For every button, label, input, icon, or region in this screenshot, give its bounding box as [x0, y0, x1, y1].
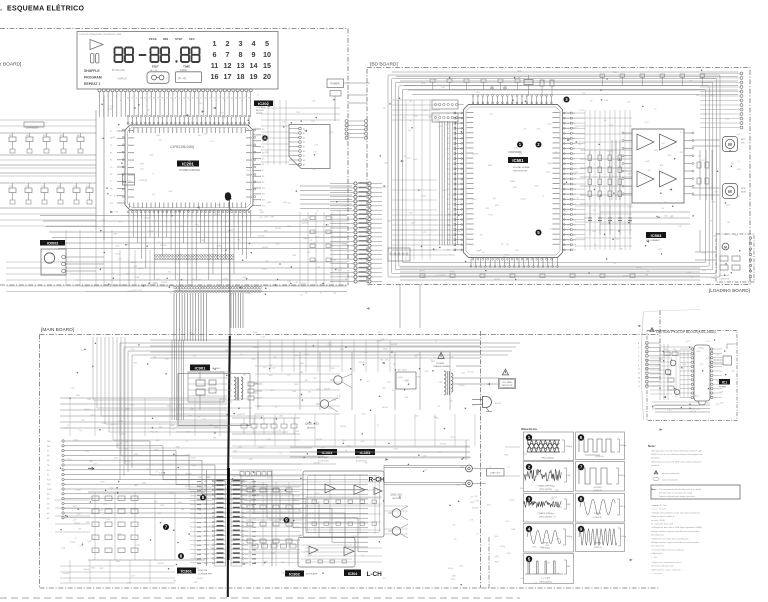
- svg-text:5: 5: [145, 222, 146, 224]
- svg-text:100: 100: [627, 101, 630, 103]
- svg-text:28: 28: [215, 100, 217, 102]
- svg-text:○ : test point: ○ : test point: [651, 572, 662, 575]
- BD board right pin to ladder wires: [572, 112, 585, 114]
- svg-text:○ : CD: ○ : CD: [651, 556, 657, 559]
- optical pickup left connector: [646, 342, 649, 344]
- svg-text:: internal component.: : internal component.: [661, 472, 680, 475]
- main board lower-left wires: [55, 499, 90, 501]
- svg-text:DSP: DSP: [510, 181, 515, 183]
- svg-text:SLED: SLED: [47, 489, 52, 491]
- svg-text:K9: K9: [262, 182, 264, 184]
- svg-text:# F <: # F <: [667, 409, 673, 412]
- svg-text:• Abbreviations used in schema: • Abbreviations used in schematic.: [651, 568, 682, 571]
- svg-text:2SC945: 2SC945: [236, 398, 242, 400]
- small arrowheads scattered: [202, 110, 205, 112]
- comp row right of fold: [240, 472, 244, 477]
- IC502 surrounding passives: [611, 140, 613, 200]
- svg-text:66: 66: [567, 184, 569, 186]
- svg-text:L557: L557: [701, 160, 705, 162]
- svg-text:C412: C412: [118, 443, 122, 445]
- svg-text:31: 31: [228, 96, 230, 98]
- svg-text:64: 64: [567, 194, 569, 196]
- svg-text:1: 1: [213, 39, 217, 48]
- svg-text:0.1: 0.1: [320, 293, 322, 295]
- svg-text:34: 34: [144, 98, 146, 100]
- loading board wires: [695, 251, 716, 253]
- wires RCH to jacks: [384, 464, 466, 466]
- svg-text:Q302: Q302: [118, 285, 122, 287]
- svg-text:0.022µ: 0.022µ: [505, 263, 510, 265]
- svg-text:10µ/16V: 10µ/16V: [195, 280, 202, 282]
- svg-text:10µ/16V: 10µ/16V: [258, 447, 265, 449]
- svg-text:55: 55: [567, 240, 569, 242]
- svg-text:220: 220: [646, 271, 649, 273]
- svg-text:18: 18: [457, 199, 459, 201]
- svg-text:14: 14: [183, 222, 185, 224]
- svg-text:L530: L530: [116, 445, 120, 447]
- marker 8: [200, 495, 206, 501]
- IC502 right pins: [684, 132, 692, 134]
- svg-text:23: 23: [457, 224, 459, 226]
- svg-text:D501: D501: [127, 582, 131, 584]
- IC202 label: [254, 101, 273, 107]
- svg-text:K7: K7: [262, 170, 264, 172]
- fold blob: [225, 192, 231, 200]
- main board verticals under power: [254, 414, 256, 446]
- main board left staircase wires: [64, 441, 368, 475]
- svg-text:10µ/16V: 10µ/16V: [262, 247, 269, 249]
- svg-text:D454: D454: [476, 92, 480, 94]
- waveform 6 square: [576, 432, 625, 460]
- svg-text:R305: R305: [507, 553, 511, 555]
- svg-text:• Voltages are dash with a VOM: • Voltages are dash with a VOM (Input im…: [651, 526, 703, 529]
- svg-text:D135: D135: [328, 408, 332, 410]
- svg-text:2SC945: 2SC945: [301, 220, 307, 222]
- svg-text:C412: C412: [295, 282, 299, 284]
- svg-text:R305: R305: [300, 363, 304, 365]
- svg-text:50WV or less are not indicated: 50WV or less are not indicated except fo…: [651, 453, 702, 456]
- svg-text:67: 67: [567, 179, 569, 181]
- marker 6: [178, 553, 184, 559]
- IC1 label: [719, 379, 730, 385]
- svg-text:D501: D501: [157, 513, 161, 515]
- svg-text:C412: C412: [664, 215, 668, 217]
- svg-text:R305: R305: [545, 545, 549, 547]
- svg-text:Q302: Q302: [658, 249, 662, 251]
- IC303 label left: [317, 449, 337, 455]
- svg-text:4: 4: [141, 222, 142, 224]
- svg-text:D501: D501: [488, 165, 492, 167]
- svg-text:Q888: Q888: [267, 202, 271, 204]
- wire display board to BD top: [348, 94, 367, 96]
- svg-text:4558 D/A: 4558 D/A: [198, 569, 208, 572]
- svg-text:D26: D26: [573, 245, 576, 247]
- IC201 internal pin name labels: [128, 128, 131, 134]
- svg-text:1/4W: 1/4W: [416, 376, 420, 378]
- L-CH black box: [344, 570, 361, 577]
- svg-text:Q865: Q865: [452, 576, 456, 578]
- svg-text:C364: C364: [280, 562, 284, 564]
- svg-text:2SC945: 2SC945: [340, 426, 346, 428]
- svg-text:10µ/16V: 10µ/16V: [391, 344, 398, 346]
- IC1 pin pads right: [711, 348, 713, 350]
- svg-text:R305: R305: [340, 349, 344, 351]
- svg-text:0.022µ: 0.022µ: [504, 254, 509, 256]
- svg-text:Q302: Q302: [246, 293, 250, 295]
- svg-text:3: 3: [136, 222, 137, 224]
- svg-text:Q325: Q325: [382, 388, 386, 390]
- marker 7: [163, 524, 169, 530]
- svg-text:54: 54: [567, 245, 569, 247]
- display board right section comps: [310, 216, 315, 220]
- svg-text:STEP: STEP: [175, 37, 182, 41]
- wires transformer to selector: [453, 377, 499, 379]
- display lower bus extension: [6, 261, 60, 263]
- connector pad strip CN201: [155, 254, 157, 256]
- svg-text:1/4W: 1/4W: [170, 425, 174, 427]
- svg-text:P5: P5: [110, 167, 112, 169]
- svg-text:D501: D501: [382, 187, 386, 189]
- svg-text:K3: K3: [262, 147, 264, 149]
- svg-text:L580: L580: [246, 170, 250, 172]
- svg-text:R11: R11: [9, 135, 12, 137]
- svg-text:PEAK: PEAK: [149, 37, 157, 41]
- svg-text:Q304: Q304: [347, 446, 351, 448]
- svg-text:0.022: 0.022: [701, 252, 705, 254]
- svg-text:C908: C908: [397, 388, 401, 390]
- svg-text:1/4W: 1/4W: [135, 277, 139, 279]
- svg-text:1µ: 1µ: [316, 210, 318, 212]
- svg-text:330: 330: [305, 293, 308, 295]
- svg-text:47µ: 47µ: [240, 354, 243, 356]
- svg-text:POWER: POWER: [330, 83, 339, 86]
- crystal X501 cluster above IC501: [524, 80, 533, 85]
- svg-text:R305: R305: [555, 490, 559, 492]
- waveform 9 dense sine: [576, 524, 625, 552]
- svg-text:R305: R305: [535, 185, 539, 187]
- svg-text:R305: R305: [179, 226, 183, 228]
- svg-text:(F.ERR): (F.ERR): [594, 513, 601, 515]
- svg-text:R305: R305: [725, 234, 729, 236]
- svg-text:0.1: 0.1: [367, 381, 369, 383]
- svg-text:330: 330: [518, 77, 521, 79]
- svg-text:0.022: 0.022: [329, 132, 333, 134]
- svg-text:L886: L886: [298, 535, 302, 537]
- svg-text:C205: C205: [451, 195, 455, 197]
- svg-text:L-CH: L-CH: [367, 571, 383, 578]
- svg-text:C412: C412: [365, 451, 369, 453]
- svg-text:C234: C234: [61, 548, 65, 550]
- svg-text:10µ/16V: 10µ/16V: [560, 240, 567, 242]
- svg-text:47µ: 47µ: [242, 482, 245, 484]
- svg-text:0.1: 0.1: [203, 234, 205, 236]
- wire bundle to main board left: [173, 293, 175, 341]
- svg-text:0.022: 0.022: [726, 204, 730, 206]
- svg-text:25: 25: [229, 222, 231, 224]
- svg-text:D181: D181: [231, 293, 235, 295]
- svg-text:1/4W: 1/4W: [217, 245, 221, 247]
- svg-text:C412: C412: [377, 332, 381, 334]
- AC plug: [483, 397, 492, 408]
- svg-text:P2: P2: [110, 145, 112, 147]
- svg-text:16: 16: [457, 189, 459, 191]
- svg-text:Q303, 932: Q303, 932: [391, 494, 403, 497]
- top-left nested cascade: [93, 337, 240, 400]
- svg-text:2: 2: [528, 465, 531, 470]
- svg-text:C412: C412: [425, 371, 429, 373]
- svg-text:MOTOR: MOTOR: [256, 110, 264, 112]
- svg-text:1.1V p: 1.1V p: [621, 536, 626, 538]
- svg-text:R282: R282: [142, 483, 146, 485]
- IC302 component area: [247, 488, 253, 492]
- svg-text:D152: D152: [670, 217, 674, 219]
- svg-text:IC501: IC501: [512, 158, 524, 163]
- svg-text:Q952: Q952: [220, 113, 224, 115]
- svg-text:0.022µ: 0.022µ: [459, 385, 464, 387]
- main board right of CN301 comps: [252, 544, 258, 548]
- IC201 top pins and wires to display: [99, 92, 101, 117]
- svg-text:[MAIN BOARD]: [MAIN BOARD]: [41, 327, 74, 333]
- svg-text:44: 44: [188, 98, 190, 100]
- svg-text:0.022µ: 0.022µ: [448, 568, 453, 570]
- svg-text:+12V: +12V: [645, 161, 650, 163]
- svg-text:68: 68: [567, 174, 569, 176]
- svg-text:5: 5: [265, 39, 269, 48]
- svg-text:D501: D501: [121, 433, 125, 435]
- svg-text:Q731: Q731: [644, 275, 648, 277]
- wire bus display to BD board: [300, 185, 352, 187]
- svg-text:R305: R305: [584, 218, 588, 220]
- svg-text:DIGITAL SIGNAL: DIGITAL SIGNAL: [513, 166, 531, 169]
- svg-text:4: 4: [252, 39, 256, 48]
- svg-text:R305: R305: [257, 406, 261, 408]
- svg-text:P0: P0: [110, 131, 112, 133]
- svg-text:D726: D726: [433, 79, 437, 81]
- svg-text:B7: B7: [303, 156, 305, 158]
- svg-text:SEC: SEC: [189, 37, 195, 41]
- svg-text:B8: B8: [303, 160, 305, 162]
- svg-text:measured with play mode.: measured with play mode.: [651, 565, 675, 568]
- svg-text:0.1: 0.1: [104, 518, 106, 520]
- voltage selector warning: [502, 369, 508, 375]
- optical pickup inner wires: [659, 344, 661, 400]
- svg-text:C412: C412: [233, 451, 237, 453]
- svg-text:11: 11: [170, 222, 172, 224]
- svg-text:2: 2: [103, 100, 104, 102]
- svg-text:1: 1: [528, 435, 531, 440]
- svg-text:100: 100: [344, 206, 347, 208]
- svg-text:73: 73: [567, 148, 569, 150]
- svg-text:2.0Vp-p: 2.0Vp-p: [566, 536, 573, 538]
- optical pickup transistors: [670, 360, 676, 366]
- page fold line: [229, 200, 232, 340]
- svg-text:Q302: Q302: [342, 440, 346, 442]
- optical block bottom wires: [652, 401, 700, 403]
- svg-text:R-CH: R-CH: [369, 477, 385, 484]
- svg-text:25: 25: [202, 96, 204, 98]
- svg-text:The components identified by m: The components identified by mark ⚠ or d…: [659, 488, 701, 491]
- svg-text:0.022µ: 0.022µ: [177, 254, 182, 256]
- svg-text:SP+: SP+: [47, 494, 50, 496]
- svg-text:Q973: Q973: [225, 350, 229, 352]
- svg-text:(TP4) (5)(P14): (TP4) (5)(P14): [539, 582, 552, 584]
- transformer T901 windings: [234, 377, 236, 400]
- svg-text:100: 100: [450, 400, 453, 402]
- svg-text:D501: D501: [214, 427, 218, 429]
- svg-text:C412: C412: [439, 382, 443, 384]
- svg-text:R305: R305: [556, 538, 560, 540]
- left component row 2: [0, 182, 96, 184]
- IC302 label: [285, 571, 304, 577]
- svg-text:R916: R916: [489, 215, 493, 217]
- svg-text:D501: D501: [249, 459, 253, 461]
- IC301 analog section parts: [92, 496, 99, 501]
- svg-text:Q302: Q302: [153, 283, 157, 285]
- capacitor cluster mid BD: [589, 205, 591, 235]
- svg-text:0.022µ: 0.022µ: [190, 458, 195, 460]
- svg-text:100: 100: [391, 357, 394, 359]
- svg-text:Q302: Q302: [460, 466, 464, 468]
- svg-text:D994: D994: [282, 572, 286, 574]
- svg-text:L679: L679: [110, 106, 114, 108]
- IC502 left pins: [624, 132, 632, 134]
- svg-text:0.1: 0.1: [158, 242, 160, 244]
- svg-text:2SC945: 2SC945: [275, 228, 281, 230]
- connector pad strip CN202: [174, 287, 176, 289]
- svg-text:C412: C412: [241, 414, 245, 416]
- svg-text:R305: R305: [387, 221, 391, 223]
- svg-text:C26: C26: [86, 186, 89, 188]
- svg-text:19: 19: [457, 204, 459, 206]
- BD board mid verticals: [584, 110, 586, 250]
- svg-text:C412: C412: [725, 119, 729, 121]
- svg-text:R305: R305: [76, 395, 80, 397]
- svg-text:(T.ERR): (T.ERR): [594, 543, 601, 545]
- wires from CN301 right: [244, 486, 268, 488]
- svg-text:Q418: Q418: [697, 348, 701, 350]
- svg-text:0.022µ: 0.022µ: [115, 254, 120, 256]
- svg-text:1µ: 1µ: [577, 198, 579, 200]
- svg-text:76: 76: [567, 133, 569, 135]
- svg-text:330: 330: [555, 152, 558, 154]
- svg-text:47µ: 47µ: [153, 357, 156, 359]
- svg-text:27: 27: [237, 222, 239, 224]
- svg-text:1/4W: 1/4W: [287, 280, 291, 282]
- svg-text:C412: C412: [106, 519, 110, 521]
- svg-text:Voltage variations may be note: Voltage variations may be noted due to n…: [651, 530, 700, 533]
- svg-text:M: M: [724, 245, 727, 249]
- svg-text:0.022µ: 0.022µ: [398, 377, 403, 379]
- svg-text:Q302: Q302: [494, 556, 498, 558]
- svg-text:2SC945: 2SC945: [382, 407, 388, 409]
- svg-text:D640: D640: [178, 502, 182, 504]
- svg-text:D501: D501: [195, 224, 199, 226]
- svg-text:100: 100: [578, 144, 581, 146]
- svg-text:7: 7: [580, 465, 583, 470]
- svg-text:• Voltage and waveforms are dc: • Voltage and waveforms are dc with resp…: [651, 511, 699, 514]
- svg-text:• Voltages are approximate val: • Voltages are approximate values.: [651, 561, 682, 564]
- svg-text:2SC945: 2SC945: [258, 236, 264, 238]
- svg-text:F17: F17: [245, 558, 248, 560]
- svg-text:2: 2: [132, 222, 133, 224]
- svg-text:330: 330: [188, 161, 191, 163]
- IC201 left pins: [117, 130, 125, 132]
- svg-text:12: 12: [174, 222, 176, 224]
- svg-text:VOL TAGE: VOL TAGE: [502, 381, 512, 384]
- svg-text:1µ: 1µ: [126, 442, 128, 444]
- svg-text:D501: D501: [544, 95, 548, 97]
- display board lower vertical stubs: [65, 230, 67, 285]
- svg-text:10µ/16V: 10µ/16V: [161, 282, 168, 284]
- svg-text:46: 46: [196, 98, 198, 100]
- svg-text:P8: P8: [110, 188, 112, 190]
- svg-text:Q219: Q219: [125, 273, 129, 275]
- svg-text:C907: C907: [645, 122, 649, 124]
- FL003 wires: [66, 256, 104, 258]
- svg-text:18: 18: [172, 100, 174, 102]
- AC input block: [396, 372, 416, 389]
- svg-text:14: 14: [457, 179, 459, 181]
- svg-text:15: 15: [159, 96, 161, 98]
- svg-text:1/4W: 1/4W: [133, 266, 137, 268]
- IC303 label right: [355, 449, 375, 455]
- svg-text:17: 17: [168, 96, 170, 98]
- svg-text:1µ: 1µ: [304, 333, 306, 335]
- IC503 label: [646, 232, 666, 238]
- wire bus horizontal lower second: [60, 261, 347, 263]
- IC201 right pins: [253, 128, 261, 130]
- svg-text:K13: K13: [262, 206, 265, 208]
- svg-text:PB0: PB0: [204, 481, 207, 483]
- svg-text:Q302: Q302: [237, 414, 241, 416]
- svg-text:R305: R305: [111, 424, 115, 426]
- notes boxed note: [651, 485, 740, 499]
- svg-text:LAY BOARD]: LAY BOARD]: [0, 62, 21, 68]
- svg-text:[]x- -x[]: []x- -x[]: [178, 76, 186, 80]
- svg-text:P9: P9: [110, 196, 112, 198]
- svg-text:330: 330: [159, 427, 162, 429]
- svg-text:2SC945: 2SC945: [467, 372, 473, 374]
- svg-text:1/4W: 1/4W: [113, 234, 117, 236]
- svg-text:18: 18: [237, 72, 245, 81]
- BD board outline: [367, 68, 750, 285]
- svg-text:tantalums.: tantalums.: [651, 457, 661, 460]
- svg-text:D501: D501: [615, 238, 619, 240]
- svg-text:D728: D728: [736, 196, 740, 198]
- svg-text:47µ: 47µ: [168, 272, 171, 274]
- svg-text:2SC945: 2SC945: [185, 486, 191, 488]
- display panel pin pads row: [98, 89, 101, 92]
- svg-text:10µ/16V: 10µ/16V: [303, 238, 310, 240]
- svg-text:D507: D507: [714, 192, 718, 194]
- svg-text:P6: P6: [110, 174, 112, 176]
- svg-text:18: 18: [199, 222, 201, 224]
- svg-text:19: 19: [176, 96, 178, 98]
- svg-text:MTR: MTR: [741, 188, 746, 190]
- optical pickup outline: [647, 331, 737, 421]
- svg-text:D501: D501: [737, 169, 741, 171]
- svg-text:1µ: 1µ: [409, 120, 411, 122]
- svg-text:2SC945: 2SC945: [607, 151, 613, 153]
- svg-text:Q302: Q302: [264, 217, 268, 219]
- svg-text:20: 20: [263, 72, 271, 81]
- svg-text:10µ/16V: 10µ/16V: [419, 270, 426, 272]
- svg-text:1.1Vp-p: 1.1Vp-p: [620, 445, 627, 447]
- svg-text:M: M: [728, 142, 732, 147]
- main board bottom extra: [60, 565, 175, 567]
- svg-text:R305: R305: [260, 212, 264, 214]
- svg-text:L313: L313: [387, 381, 391, 383]
